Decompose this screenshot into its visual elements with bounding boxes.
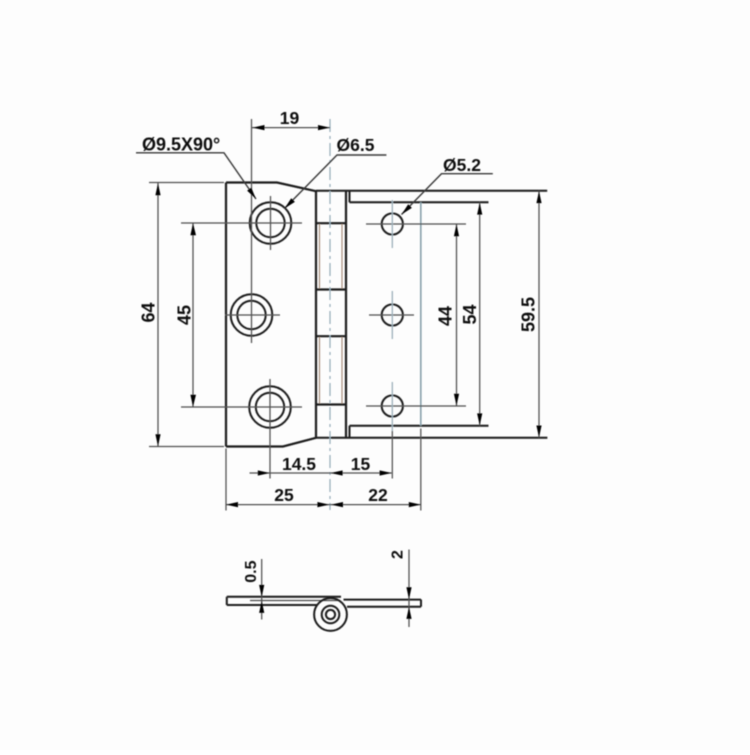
dimension 19 bbox=[252, 108, 330, 130]
svg-text:Ø6.5: Ø6.5 bbox=[337, 135, 375, 155]
dimension 64 bbox=[139, 183, 225, 447]
svg-text:Ø9.5X90°: Ø9.5X90° bbox=[142, 135, 220, 155]
side view curl middle bbox=[322, 606, 340, 624]
svg-text:64: 64 bbox=[139, 302, 159, 322]
dimension 54 bbox=[460, 202, 482, 425]
svg-text:25: 25 bbox=[274, 485, 294, 505]
side view right leaf bbox=[344, 600, 422, 607]
left leaf outline bbox=[226, 183, 316, 447]
side view lamination line bbox=[250, 600, 339, 602]
dimension 25 and 22 bbox=[226, 429, 421, 511]
svg-text:2: 2 bbox=[390, 550, 407, 559]
side view curl outer bbox=[314, 598, 347, 631]
countersunk hole L2 bbox=[231, 294, 273, 336]
dimension 0.5 bbox=[243, 559, 264, 620]
countersunk hole L1 bbox=[250, 202, 292, 244]
callout dia 6.5 bbox=[285, 135, 387, 209]
dimension 45 bbox=[175, 223, 197, 407]
right leaf edge line bbox=[420, 202, 422, 425]
knuckle inner lines bbox=[320, 224, 343, 404]
hole R1 bbox=[382, 213, 403, 234]
hole R3 bbox=[382, 395, 403, 416]
svg-text:44: 44 bbox=[436, 306, 456, 326]
svg-text:22: 22 bbox=[368, 485, 388, 505]
svg-text:45: 45 bbox=[175, 305, 195, 325]
knuckle strip bbox=[316, 191, 346, 438]
callout dia 5.2 bbox=[402, 155, 493, 215]
svg-text:Ø5.2: Ø5.2 bbox=[443, 155, 481, 175]
dimension 2 bbox=[390, 550, 412, 628]
dimension 59.5 bbox=[519, 191, 542, 438]
callout dia 9.5x90 bbox=[136, 135, 256, 200]
dimension 44 bbox=[436, 224, 460, 406]
dimension 14.5 and 15 bbox=[250, 454, 392, 476]
svg-text:15: 15 bbox=[351, 454, 371, 474]
countersunk hole L3 bbox=[249, 386, 291, 428]
right leaf outline bbox=[316, 191, 547, 438]
side view pin hole bbox=[326, 610, 335, 619]
svg-text:14.5: 14.5 bbox=[282, 454, 316, 474]
hole R2 bbox=[382, 304, 403, 325]
svg-text:19: 19 bbox=[280, 108, 300, 128]
svg-text:54: 54 bbox=[460, 304, 480, 324]
svg-text:59.5: 59.5 bbox=[519, 297, 539, 332]
side view left leaf bbox=[227, 597, 341, 605]
svg-text:0.5: 0.5 bbox=[243, 560, 260, 582]
hole centerlines right bbox=[366, 224, 466, 406]
hole centerlines left bbox=[181, 119, 302, 479]
pin centerline bbox=[329, 119, 331, 510]
